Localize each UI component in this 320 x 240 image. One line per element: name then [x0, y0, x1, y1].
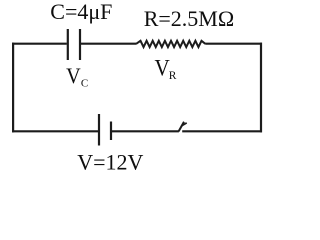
switch S1 blade [179, 122, 187, 132]
wire top-left segment [12, 43, 67, 45]
svg-text:R: R [169, 70, 177, 82]
battery B1 short plate [110, 122, 112, 141]
wire bottom-right segment [182, 130, 262, 132]
resistor R1 zigzag [136, 41, 205, 47]
battery B1 long plate [98, 114, 100, 146]
svg-text:V: V [155, 54, 170, 80]
wire top-middle segment [81, 43, 136, 45]
svg-text:C=4μF: C=4μF [50, 0, 112, 24]
wire bottom-left segment [12, 130, 98, 132]
wire right vertical [260, 43, 262, 133]
svg-text:V: V [66, 63, 81, 88]
wire left vertical [12, 43, 14, 133]
svg-text:R=2.5MΩ: R=2.5MΩ [144, 6, 235, 31]
wire bottom-middle segment [112, 130, 179, 132]
capacitor C1 plates [68, 29, 80, 60]
wire top-right segment [205, 43, 262, 45]
svg-text:C: C [81, 77, 88, 89]
svg-text:V=12V: V=12V [77, 149, 143, 174]
